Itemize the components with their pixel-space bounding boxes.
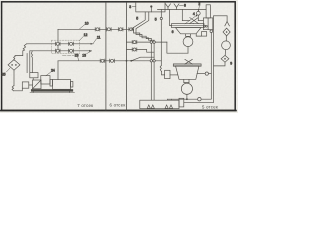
label 2 — [198, 2, 200, 11]
steps pipe B — [136, 29, 154, 40]
distribution box 3 — [136, 2, 165, 12]
tank2 drain stem — [186, 94, 188, 99]
small fitting box right of tank1 — [202, 32, 207, 36]
manifold triangle a2 — [151, 105, 154, 109]
pressure gauge — [222, 41, 231, 50]
wire W10 top manifold — [58, 28, 132, 30]
drop pipe from box3 left — [132, 12, 145, 29]
coupling on W23 at 112.4 — [110, 59, 115, 62]
label 23 — [75, 54, 79, 61]
label 13 — [82, 51, 91, 58]
tank 2 neck — [184, 79, 189, 82]
parallel drop pipe — [26, 54, 28, 73]
label 11 — [93, 35, 100, 43]
valve housing on pump — [41, 76, 50, 84]
tank 2 lid — [173, 64, 201, 66]
gauge stem — [225, 36, 227, 41]
coupling flange — [50, 80, 53, 87]
coupling on W45 at 130.6 — [132, 40, 137, 43]
valve4 stem to tank1 lid — [192, 22, 194, 24]
tank 1 body — [176, 28, 202, 34]
dashed group box around couplings — [52, 40, 80, 53]
valve box 24 — [30, 73, 38, 78]
wire spray main — [158, 9, 207, 11]
ground line — [30, 91, 75, 93]
crossing ring V2/W45 — [153, 41, 155, 43]
filter diamond 1 — [223, 28, 230, 36]
fitting on riser — [160, 17, 162, 19]
manifold side box 5 — [179, 98, 184, 107]
stub into manifold a — [167, 99, 169, 100]
coupling on W23 at 104.6 — [100, 59, 105, 62]
strainer dots — [11, 64, 13, 66]
foot left — [32, 91, 34, 92]
wire bottom return lower — [184, 101, 214, 103]
diamond1 dot — [226, 31, 228, 33]
fitting box at pump inlet — [22, 82, 29, 88]
manifold triangle b1 — [165, 105, 168, 109]
pipe valve box to tank2 — [170, 74, 178, 76]
solenoid box 2 — [203, 18, 212, 30]
valve 4 body — [182, 18, 203, 24]
spray feed riser — [160, 10, 162, 66]
manifold triangle b2 — [169, 105, 172, 109]
border frame — [2, 2, 236, 111]
sprinkler nozzle 2 — [174, 4, 179, 10]
junction dot at 131.8 — [130, 60, 132, 62]
tank1 drain stem — [187, 47, 189, 54]
tank 2 body — [176, 66, 199, 79]
suction pipe to pump — [13, 88, 22, 91]
box3 inner dot — [150, 5, 152, 7]
label 24 — [46, 69, 55, 76]
tank 1 drain pot — [183, 37, 193, 47]
standpipe V3 — [210, 33, 212, 99]
crossing ring V2/W23 — [153, 60, 155, 62]
baseplate — [31, 90, 73, 92]
manifold triangle a1 — [147, 105, 150, 109]
bottom border thick line — [1, 110, 236, 112]
suction drop pipe — [13, 70, 15, 85]
return drop pipes from W2 — [29, 51, 31, 73]
pump body — [33, 80, 42, 89]
coupling on W1 at 71 — [69, 42, 74, 45]
standpipe V2 — [153, 40, 155, 100]
tank 1 neck — [186, 34, 191, 37]
drop pipe from box3 mid — [136, 12, 149, 29]
flex joint on tank2 feed — [160, 66, 161, 72]
right standpipe V4 — [213, 16, 215, 103]
electric motor — [53, 80, 71, 90]
wire A elbow to tank1 drain — [167, 42, 188, 53]
coupling on W45 at 136.6 — [132, 48, 137, 51]
crossing ring V1/W23 — [150, 60, 152, 62]
svg-text:6 отсек: 6 отсек — [110, 103, 126, 108]
foot right — [69, 91, 71, 92]
pipe fitting box to tank1 — [196, 34, 201, 36]
stub into manifold b — [171, 99, 173, 100]
tank 2 drain pot — [181, 83, 192, 94]
wire W23 return main — [58, 60, 131, 62]
dashes under coupling box — [63, 54, 76, 56]
coupling on W10 at 109 — [107, 28, 112, 31]
coupling on W2 at 57.7 — [55, 49, 60, 52]
tank 1 lid — [172, 24, 205, 28]
junction tank2 drain — [186, 98, 188, 100]
diagonal branch from W23 junction — [131, 57, 154, 61]
filter diamond 2 — [221, 55, 229, 62]
bulkhead divider 6/5 otsek — [126, 3, 128, 111]
check valve top right — [214, 16, 230, 26]
label 3 — [129, 5, 136, 9]
motor end cap — [71, 82, 73, 88]
coupling on W10 at 97 — [95, 28, 100, 31]
coupling on W10 at 129.8 — [129, 28, 134, 31]
pipe to tank2 valve box — [162, 72, 165, 75]
label 10 — [80, 22, 89, 29]
steps from W10 to standpipes — [132, 29, 152, 38]
diamond strainer 25 — [8, 60, 20, 71]
wire W1 hose line — [27, 43, 94, 45]
solenoid upper box — [206, 5, 210, 18]
wire bottom return upper — [168, 98, 212, 100]
coupling on W1 at 57.7 — [55, 42, 60, 45]
coupling on W2 at 71 — [69, 49, 74, 52]
drop from W23 to motor — [57, 61, 59, 80]
fitting 2 circle — [196, 11, 200, 15]
wire W45 middle feed — [127, 41, 167, 43]
flex joint bottom left — [12, 86, 14, 91]
drop to fitting 2 — [197, 10, 199, 12]
drop pipe from W1 — [15, 51, 23, 57]
tank2 outlet wire — [197, 73, 211, 75]
valve 4 arrow — [185, 15, 198, 24]
fitting 2 lower stem — [197, 15, 199, 20]
flex joint on W1 left end — [23, 44, 27, 51]
W23 continuation to tank2 — [131, 60, 161, 62]
coupling on W10 at 118.6 — [118, 28, 123, 31]
pipe valve box to pump — [32, 78, 34, 80]
label 25 — [2, 68, 10, 77]
diamond2 drain — [214, 62, 225, 66]
coupling on tank2 outlet — [205, 72, 208, 75]
label 8 — [179, 4, 186, 8]
flex joint above suction diamond — [14, 56, 15, 60]
diamond2 dot — [224, 58, 226, 60]
svg-text:7 отсек: 7 отсек — [77, 103, 93, 108]
box3 inner stem — [150, 7, 152, 12]
crossing ring V1/W45 — [150, 41, 152, 43]
wire W2 hose line — [30, 50, 92, 52]
junction dot at 126.4 — [126, 60, 128, 62]
gauge to diamond2 stem — [224, 50, 226, 56]
pipe from fitting to pump — [29, 84, 33, 86]
tank2 side valve box — [165, 70, 170, 78]
coupling under solenoid box — [210, 30, 213, 33]
svg-text:5 отсек: 5 отсек — [202, 104, 218, 109]
third drop with flex — [31, 51, 32, 73]
standpipe V1 — [150, 39, 152, 101]
wire B middle — [127, 50, 155, 53]
wire W10 left drop — [57, 29, 59, 51]
sprinkler nozzle 1 — [166, 4, 171, 10]
coupling on bottom return — [198, 98, 201, 101]
tank1 feed riser — [170, 10, 172, 26]
label 12 — [80, 33, 88, 40]
paper noise overlay — [0, 0, 238, 113]
valve X on tank2 — [185, 59, 192, 64]
solenoid box inner line — [207, 18, 209, 30]
valve4 drop from spray main — [181, 10, 183, 21]
bulkhead divider 7/6 otsek — [105, 3, 107, 111]
bottom manifold box — [140, 100, 179, 109]
